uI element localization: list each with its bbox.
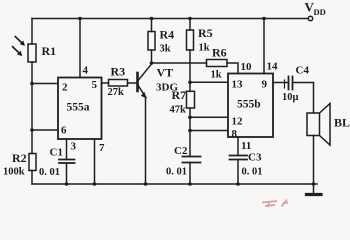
- node speaker-rail: [312, 182, 316, 186]
- wire pin12 node to pin8 node: [189, 117, 191, 130]
- node C3-rail: [236, 182, 240, 186]
- emitter arrowhead: [141, 92, 147, 98]
- svg-text:BL: BL: [334, 116, 350, 130]
- resistor R2: [29, 154, 36, 171]
- wire R7 to pin12 node: [189, 108, 191, 117]
- svg-text:4: 4: [83, 65, 89, 77]
- svg-text:5: 5: [92, 79, 98, 91]
- wire rail to R4: [151, 19, 153, 32]
- wire left vertical top: [31, 19, 33, 45]
- wire C1 to rail: [66, 163, 68, 184]
- svg-text:R3: R3: [111, 65, 126, 79]
- svg-text:VT: VT: [157, 66, 174, 80]
- node R5-R7-pin13: [188, 81, 192, 85]
- svg-text:1k: 1k: [211, 70, 222, 81]
- wire pin14: [263, 19, 265, 74]
- op-amp U2 555b box: [228, 74, 273, 138]
- svg-text:1k: 1k: [199, 43, 210, 54]
- wire pin8: [190, 130, 228, 132]
- wire C3 to rail: [237, 160, 239, 185]
- svg-text:8: 8: [232, 128, 238, 140]
- node pin6 junction: [30, 128, 34, 132]
- red watermark scribble: [262, 200, 288, 208]
- wire pin12: [190, 116, 228, 118]
- node C1-rail: [65, 182, 69, 186]
- svg-text:12: 12: [232, 116, 244, 128]
- node rail-pin14: [262, 17, 266, 21]
- light arrow 1: [15, 37, 23, 45]
- svg-text:10: 10: [241, 61, 253, 73]
- node collector: [150, 61, 154, 65]
- svg-text:R5: R5: [198, 26, 213, 40]
- wire rail to R5: [189, 19, 191, 31]
- svg-text:0. 01: 0. 01: [242, 167, 263, 178]
- node emitter-rail: [144, 182, 148, 186]
- wire pin3 to C1: [66, 139, 68, 160]
- svg-text:6: 6: [61, 125, 67, 137]
- transistor emitter: [139, 86, 147, 98]
- resistor R7: [187, 91, 195, 108]
- resistor R1: [28, 44, 36, 62]
- resistor R4: [148, 32, 155, 51]
- wire pin7 to rail: [94, 139, 96, 184]
- light arrow 2: [13, 47, 21, 55]
- svg-text:C4: C4: [296, 65, 310, 77]
- wire R5 to pin13 node: [189, 50, 191, 82]
- terminal VDD circle: [308, 16, 312, 20]
- speaker BL box: [307, 113, 320, 136]
- svg-text:13: 13: [232, 79, 244, 91]
- wire collector to R6: [152, 62, 207, 64]
- capacitor C4: [288, 77, 290, 90]
- svg-text:11: 11: [241, 140, 251, 152]
- wire top rail VDD: [32, 18, 308, 20]
- svg-text:9: 9: [262, 79, 268, 91]
- wire pin2: [32, 83, 58, 85]
- svg-text:3k: 3k: [160, 44, 171, 55]
- svg-text:2: 2: [62, 82, 68, 94]
- node pin2 junction: [30, 82, 34, 86]
- svg-text:R2: R2: [12, 151, 27, 165]
- svg-text:27k: 27k: [108, 87, 125, 98]
- wire R4 to collector node: [151, 50, 153, 63]
- svg-text:C3: C3: [248, 152, 262, 164]
- wire R3 to base: [128, 82, 137, 84]
- resistor R3: [109, 80, 128, 87]
- wire pin11 to C3: [237, 137, 239, 156]
- svg-text:10μ: 10μ: [282, 92, 299, 103]
- wire R2 to bottom rail: [31, 171, 33, 185]
- wire R1 bottom to R2 top: [31, 62, 33, 154]
- svg-text:0. 01: 0. 01: [166, 167, 187, 178]
- wire C4 to speaker: [293, 83, 314, 114]
- wire pin5 to R3: [102, 82, 109, 84]
- node C2-rail: [188, 182, 192, 186]
- transistor Q1 VT base bar: [136, 73, 139, 91]
- transistor collector: [139, 64, 152, 80]
- wire pin9 to C4: [273, 82, 287, 84]
- svg-text:47k: 47k: [170, 105, 187, 116]
- svg-text:7: 7: [99, 142, 105, 154]
- capacitor C3: [230, 155, 248, 157]
- wire pin8 node to C2: [189, 131, 191, 157]
- wire pin4: [79, 19, 81, 78]
- capacitor C4 plus mark: [284, 80, 286, 88]
- resistor R5: [187, 30, 194, 50]
- node rail-pin4: [78, 17, 82, 21]
- wire node to R7: [189, 82, 191, 91]
- capacitor C2: [183, 156, 201, 158]
- svg-text:14: 14: [267, 61, 279, 73]
- node pin8: [188, 129, 192, 133]
- svg-text:555a: 555a: [67, 102, 90, 114]
- wire C2 to rail: [189, 163, 191, 185]
- wire pin13: [190, 81, 228, 83]
- svg-text:R6: R6: [212, 46, 227, 60]
- svg-text:0. 01: 0. 01: [39, 167, 60, 178]
- wire pin6: [32, 129, 58, 131]
- ground: [313, 184, 315, 194]
- svg-text:DD: DD: [314, 7, 326, 17]
- wire bottom rail: [32, 183, 317, 185]
- svg-text:R7: R7: [172, 88, 187, 102]
- capacitor C1: [59, 159, 75, 161]
- speaker cone: [320, 104, 331, 146]
- svg-text:R4: R4: [160, 28, 175, 42]
- svg-text:C1: C1: [50, 147, 63, 159]
- node rail-R5: [188, 17, 192, 21]
- wire R6 to pin10: [227, 63, 238, 74]
- svg-text:C2: C2: [174, 145, 188, 157]
- svg-text:100k: 100k: [3, 167, 25, 178]
- node pin12: [188, 116, 192, 120]
- node pin7-rail: [93, 182, 97, 186]
- op-amp U1 555a box: [58, 78, 102, 140]
- svg-text:R1: R1: [42, 44, 57, 58]
- wire emitter to rail: [145, 98, 147, 185]
- resistor R6: [207, 60, 228, 67]
- svg-text:555b: 555b: [237, 99, 261, 111]
- svg-text:3: 3: [71, 141, 77, 153]
- wire speaker to rail: [313, 136, 315, 185]
- node rail-R4: [150, 17, 154, 21]
